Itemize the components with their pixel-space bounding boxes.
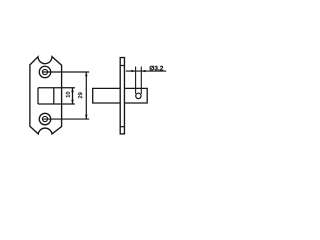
hole H1 inner circle (top) bbox=[42, 69, 47, 74]
side view: flange rectangle bbox=[120, 58, 124, 134]
pin right portion rectangle bbox=[124, 88, 147, 103]
dimension 29 text bbox=[78, 92, 82, 98]
extension line right of hole d3.2 bbox=[140, 67, 142, 94]
dimension d3.2 right arrow bbox=[141, 70, 145, 72]
dimension d3.2 left arrow bbox=[131, 70, 135, 72]
extension line left of hole d3.2 bbox=[135, 67, 137, 94]
flange chamfer edge line bottom bbox=[120, 126, 124, 128]
dimension 29 arrow up bbox=[85, 72, 88, 76]
extension line from hole H1 center bbox=[42, 71, 89, 73]
dimension 29 arrow down bbox=[85, 115, 88, 119]
dimension 29 line bbox=[85, 72, 87, 119]
middle slot band left edge bbox=[37, 88, 39, 104]
front view: plate outline with top and bottom semicircular notches bbox=[30, 57, 62, 134]
hole H2 inner circle (bottom) bbox=[42, 116, 47, 121]
pin left portion rectangle bbox=[93, 88, 121, 103]
dimension d3.2 text bbox=[150, 66, 164, 72]
dimension d3.2 leader line bbox=[126, 70, 166, 72]
hole H2 outer circle (bottom) bbox=[39, 113, 51, 125]
cross hole circle in pin bbox=[136, 93, 141, 98]
middle slot band bottom edge + extension to dim 10 bbox=[38, 103, 75, 105]
dimension 10 line bbox=[72, 88, 74, 104]
extension line from hole H2 center bbox=[42, 118, 89, 120]
hole H1 outer circle (top) bbox=[39, 66, 51, 78]
flange chamfer edge line top bbox=[120, 65, 124, 67]
dimension 10 arrow down bbox=[71, 100, 74, 104]
dimension 10 text bbox=[66, 92, 70, 98]
middle slot band top edge + extension to dim 10 bbox=[38, 87, 75, 89]
middle slot band divider bbox=[53, 88, 55, 104]
dimension 10 arrow up bbox=[71, 88, 74, 92]
